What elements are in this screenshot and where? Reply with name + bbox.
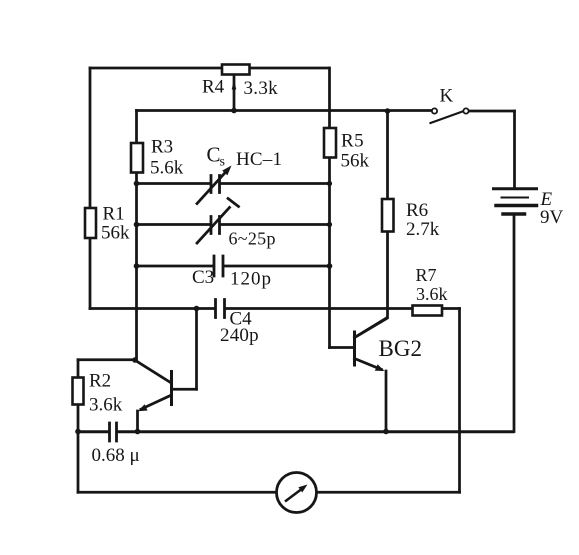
svg-text:120p: 120p [230,269,272,290]
svg-text:R6: R6 [406,200,428,221]
svg-text:240p: 240p [220,325,259,346]
svg-text:C: C [207,143,221,167]
svg-text:BG2: BG2 [379,336,422,361]
svg-text:3.6k: 3.6k [89,395,123,416]
svg-text:R4: R4 [202,77,225,98]
svg-text:5.6k: 5.6k [150,158,184,179]
svg-text:s: s [220,155,225,170]
svg-text:R7: R7 [416,265,437,285]
svg-text:3.3k: 3.3k [244,78,279,99]
svg-text:R2: R2 [89,371,111,392]
svg-text:9V: 9V [540,207,564,228]
svg-text:R1: R1 [103,204,125,225]
svg-text:0.68 μ: 0.68 μ [92,445,140,466]
svg-text:HC–1: HC–1 [236,149,282,170]
svg-text:56k: 56k [101,223,130,244]
svg-text:3.6k: 3.6k [416,284,448,304]
svg-text:K: K [440,86,454,107]
svg-text:2.7k: 2.7k [406,219,440,240]
svg-text:6~25p: 6~25p [229,229,276,249]
svg-text:R3: R3 [151,137,173,158]
svg-text:56k: 56k [341,151,370,172]
svg-text:R5: R5 [341,131,364,152]
svg-text:C3: C3 [192,267,214,288]
